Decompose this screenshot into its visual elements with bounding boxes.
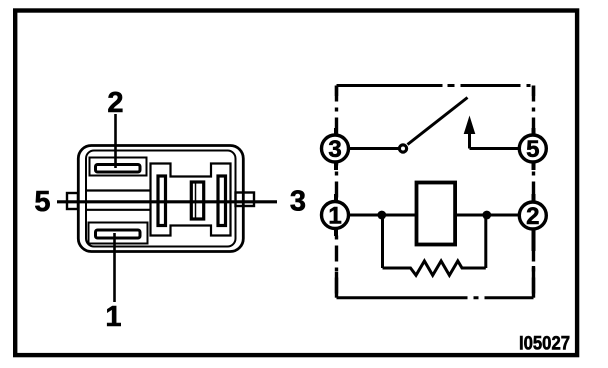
border corner stub top-left: [335, 86, 338, 97]
schematic border top: [337, 84, 534, 87]
border stub above terminal 5: [532, 128, 536, 136]
wire arrow corner to terminal 5: [470, 147, 520, 150]
terminal circle 3: [322, 135, 349, 162]
svg-text:3: 3: [328, 136, 341, 163]
pin 2 slot bar: [96, 165, 141, 173]
border corner stub bottom-left: [335, 272, 338, 298]
coil: [417, 183, 456, 245]
pin 1 slot outer rect: [89, 223, 148, 244]
svg-text:1: 1: [328, 203, 341, 230]
leader line 2: [114, 114, 117, 168]
terminal circle 5: [519, 135, 546, 162]
border stub above terminal 2: [532, 194, 536, 202]
border stub below terminal 3: [334, 161, 338, 170]
wire terminal 1 to coil: [349, 214, 417, 217]
pin 5 to pin 3 horizontal line: [57, 200, 277, 203]
schematic border left: [335, 86, 338, 298]
wire coil to terminal 2: [455, 214, 520, 217]
switch arm: [408, 98, 468, 145]
corridor bottom line: [86, 209, 151, 211]
right vertical slot bar: [218, 176, 226, 226]
center slot divider: [195, 184, 197, 218]
leader line 1: [113, 233, 116, 302]
svg-text:I05027: I05027: [519, 334, 570, 355]
corridor top line: [86, 189, 151, 191]
wire terminal 3 to switch contact: [349, 147, 400, 150]
border stub above terminal 1: [334, 194, 338, 202]
resistor branch right vertical: [484, 215, 487, 268]
switch contact open circle: [399, 145, 406, 152]
border stub below terminal 5: [532, 161, 536, 170]
center slot: [191, 182, 203, 219]
left vertical slot bar: [158, 176, 166, 226]
left tab: [67, 193, 78, 209]
schematic border right: [532, 86, 535, 298]
border corner stub bottom-right: [532, 266, 535, 298]
svg-text:5: 5: [526, 136, 539, 163]
terminal circle 1: [322, 202, 349, 229]
pin 1 slot bar: [96, 230, 141, 238]
border stub above terminal 3: [334, 128, 338, 136]
border stub below terminal 1: [334, 228, 338, 236]
terminal circle 2: [519, 202, 546, 229]
right tab: [236, 193, 255, 207]
schematic border bottom: [337, 296, 534, 299]
svg-text:2: 2: [526, 203, 539, 230]
pin 2 slot outer rect: [90, 158, 147, 176]
resistor branch left vertical: [381, 215, 384, 268]
junction dot right: [482, 211, 491, 220]
wire arrow vertical: [468, 130, 471, 149]
center dog-bone outline: [151, 164, 231, 236]
border stub below terminal 2: [532, 228, 536, 251]
svg-text:5: 5: [34, 186, 50, 218]
svg-text:3: 3: [290, 186, 306, 218]
relay body inner outline: [86, 151, 236, 247]
svg-text:1: 1: [105, 301, 121, 333]
arrow head: [464, 116, 476, 135]
border corner stub top-right: [532, 86, 535, 97]
relay body outer outline: [78, 146, 243, 252]
junction dot left: [377, 211, 386, 220]
resistor R: [383, 261, 486, 275]
